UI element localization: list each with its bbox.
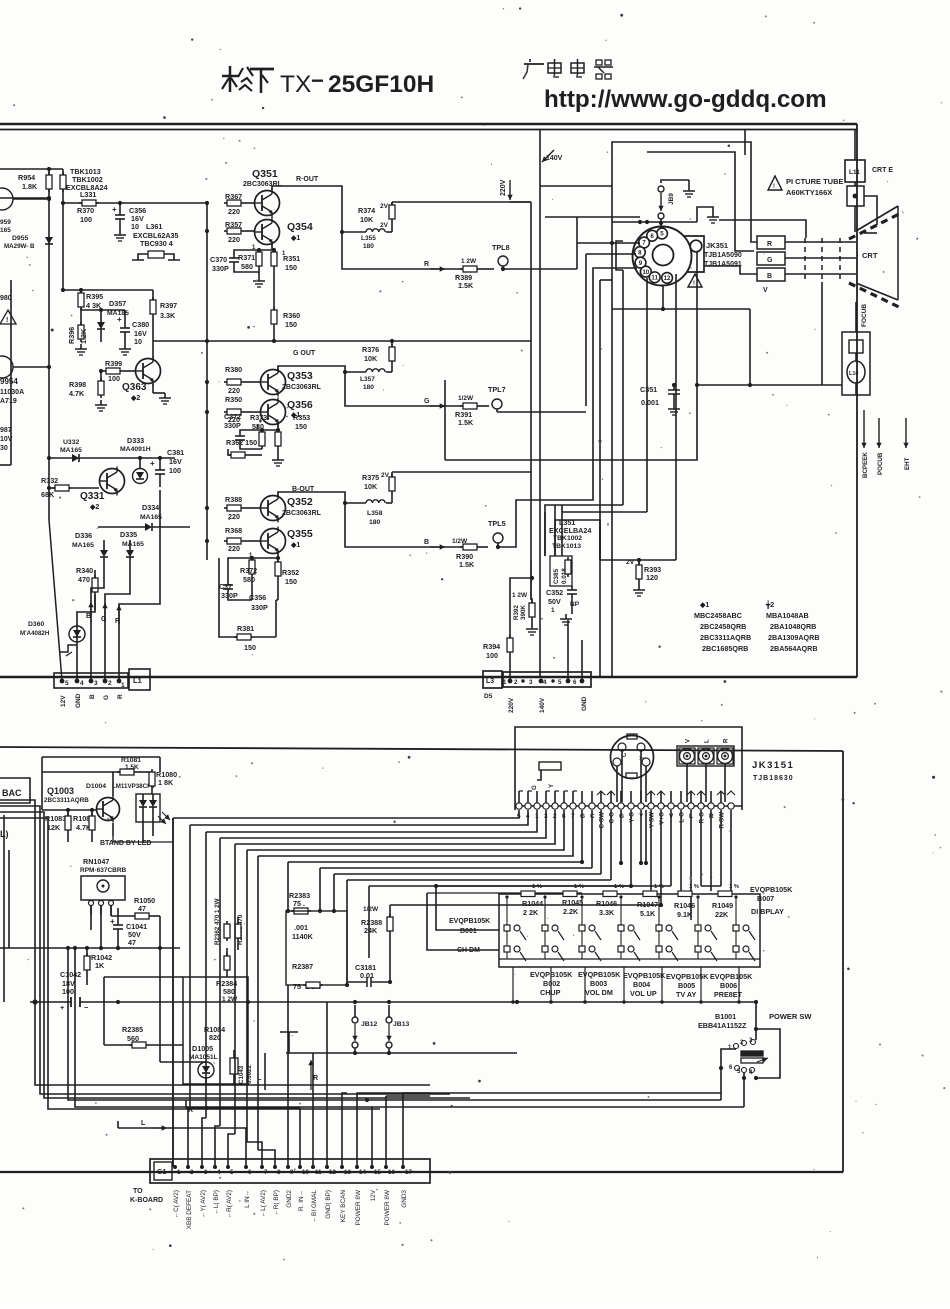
svg-text:Q353: Q353 [287,370,313,382]
label transistor sets [694,600,820,653]
transistor D959 partial left [0,188,51,234]
svg-text:B: B [86,613,91,620]
capacitor C372 330P [224,412,262,449]
wire bus upper bundle [173,810,573,856]
svg-text:0.001: 0.001 [641,398,659,407]
svg-text:120: 120 [646,573,658,582]
svg-text:8: 8 [277,1169,281,1176]
svg-text:RN1047: RN1047 [83,857,109,866]
wire power routes to left [68,948,721,1100]
resistor R332 68K [41,476,99,499]
svg-text:R1047: R1047 [637,900,658,909]
svg-text:11: 11 [651,274,658,281]
wire 140V rail [540,129,563,677]
DIN socket [611,734,654,779]
capacitor C381 [150,448,184,487]
label 987 10V 30 partial [0,427,13,452]
svg-text:B002: B002 [543,979,560,988]
capacitor C371 330P [219,558,252,600]
wires socket to RGB boxes [751,220,757,242]
svg-text:1 %: 1 % [532,884,542,890]
svg-text:L357: L357 [360,376,375,383]
diode D333 MA4091H [120,436,151,484]
svg-text:4: 4 [526,813,530,820]
svg-text:XBB DEFEAT: XBB DEFEAT [186,1190,193,1229]
svg-text:GND( BP): GND( BP) [325,1190,332,1219]
svg-text:11: 11 [315,1169,322,1176]
CRT [849,206,903,309]
svg-text:BCPEEK: BCPEEK [862,452,869,478]
resistor R381 150 box [219,558,276,652]
arrows B G R [88,602,93,622]
svg-text:150: 150 [295,422,307,431]
svg-text:JB12: JB12 [361,1021,377,1028]
svg-text:GND2: GND2 [286,1190,293,1208]
svg-text:9.1K: 9.1K [677,910,693,919]
svg-text:+: + [150,459,155,468]
svg-text:12V: 12V [370,1189,377,1201]
svg-text:L358: L358 [367,510,383,517]
wire socket stem junction [612,308,750,310]
svg-text:◆1: ◆1 [290,542,300,549]
resistor R1082 4.7K [73,810,95,842]
box R2384 [183,977,248,1084]
title 松下 (Matsushita) drawn glyphs [222,66,253,92]
bottom box right border [842,751,844,1172]
wires pins down into matrix and bundles [580,810,731,920]
resistor R395 4.3K [78,290,103,310]
svg-text:MA165: MA165 [122,541,144,548]
svg-text:TJB1A5090: TJB1A5090 [704,252,742,259]
resistor R367 220 [224,192,254,216]
svg-text:G: G [103,695,110,700]
capacitor C356 16V 10 [112,203,162,241]
svg-text:M'A4082H: M'A4082H [20,630,50,637]
svg-text:2BA564AQRB: 2BA564AQRB [770,644,818,653]
wire top-left horizontal [0,168,63,170]
svg-text:2V: 2V [380,203,389,210]
svg-text:75 .: 75 . [293,899,305,908]
testpoint TPL8 [492,243,577,271]
resistor R398 4.7K [69,369,107,411]
wire right bundle corners [436,886,671,930]
wires DIN to pins [621,751,623,802]
svg-text:7: 7 [571,813,575,820]
resistor R2388 24K [361,905,393,984]
svg-text:2BA1048QRB: 2BA1048QRB [770,622,816,631]
svg-text:2BC1685QRB: 2BC1685QRB [702,644,748,653]
svg-text:◆2: ◆2 [89,504,99,511]
svg-text:C385: C385 [553,568,560,584]
svg-text:TJB1A5091: TJB1A5091 [704,261,742,268]
svg-text:9954: 9954 [0,377,18,386]
dashed CRT grid lines [805,238,840,282]
wire long rails bottom box [0,947,180,949]
svg-text:R373: R373 [250,413,267,422]
connector G1 [150,1159,430,1183]
capacitor C356b 330P [249,593,268,612]
svg-text:Q351: Q351 [252,168,278,180]
labels JK3151 pins [517,812,726,829]
svg-text:◆1: ◆1 [699,602,709,609]
svg-text:◆1: ◆1 [290,235,300,242]
diode D336 MA165 [72,531,108,572]
svg-text:1: 1 [503,679,507,686]
wires boxes to CRT neck [785,241,856,243]
resistor R357 220 [224,220,254,244]
svg-text:4.7K: 4.7K [69,389,85,398]
wire second horizontal [0,197,49,199]
testpoint TPL5 [488,519,506,549]
wire socket-right grid [719,220,806,238]
resistor R2381 470 [235,914,244,950]
diode D955 [4,235,53,250]
svg-text:5: 5 [660,231,664,238]
resistor R1081 1.5K [42,757,160,810]
svg-text:2BC3311AQRB: 2BC3311AQRB [44,797,89,804]
transistor Q351 [243,168,319,218]
resistor R392 390K [512,560,538,635]
svg-text:DI BPLAY: DI BPLAY [751,907,784,916]
resistor R2387 75 [292,962,349,991]
label TBK1013 TBK1002 EXCBL8A24 [66,167,108,192]
label EVQPB105K B001 left [449,918,490,954]
svg-text:9: 9 [639,260,643,267]
capacitor C351 0.001 [640,383,680,415]
diode D357 MA185 [97,299,129,342]
svg-text:V+G: V+G [659,812,666,825]
svg-text:Y-G: Y-G [629,812,636,823]
svg-text:MA165: MA165 [140,514,162,521]
jumper rect inside JK3151 [539,762,561,770]
transistor Q954 partial left [0,356,51,405]
button matrix box [499,894,760,967]
svg-text:330P: 330P [224,421,241,430]
svg-text:5: 5 [230,1169,234,1176]
svg-text:24K: 24K [364,926,378,935]
svg-text:C: C [622,752,628,757]
svg-text:←L( BP): ←L( BP) [213,1190,220,1215]
svg-text:C-SW: C-SW [599,812,606,829]
svg-text:1: 1 [551,607,555,614]
svg-text:TO: TO [133,1188,143,1195]
svg-text:12K: 12K [47,823,61,832]
svg-text:5: 5 [517,813,521,820]
wire inner box2 [647,152,754,251]
svg-text:R1046: R1046 [674,901,695,910]
svg-text:1.8K: 1.8K [22,182,38,191]
label JK3151 [752,760,794,782]
ground right of socket [697,207,719,223]
capacitor C1043 0.0022 [230,1050,253,1085]
svg-text:16: 16 [388,1169,395,1176]
svg-text:◆2: ◆2 [130,395,140,402]
svg-text:POWER SW: POWER SW [769,1012,812,1021]
matrix switches row2 [504,946,755,961]
switch wires [756,1029,780,1078]
resistor R2385 560 [104,977,183,1048]
label EXCBL62A35 TBC930 [133,231,179,248]
label 980 warning partial [0,295,16,324]
svg-text:Q352: Q352 [287,496,313,508]
svg-text:17: 17 [405,1169,412,1176]
svg-text:6: 6 [573,679,577,686]
wire bus lower bundle [288,862,661,905]
wire top of Q331 area [93,457,175,459]
svg-text:3: 3 [529,679,533,686]
svg-text:1K: 1K [95,961,105,970]
warning triangle below socket [688,274,702,287]
capacitor C3181 0.01 [347,963,390,987]
capacitor C1041 50V 47 [110,908,147,950]
svg-text:2.2K: 2.2K [563,907,579,916]
svg-text:R1083: R1083 [45,814,66,823]
svg-text:R394: R394 [483,642,500,651]
wire L R arrows mid bottom [118,1100,300,1167]
transistor Q355 [261,527,313,556]
svg-text:25GF10H: 25GF10H [328,71,434,98]
svg-text:6: 6 [248,1169,252,1176]
wire bundle verticals to box [287,862,289,911]
wire main drive horizontal y203 [63,202,207,204]
svg-text:580: 580 [223,987,235,996]
svg-text:R362 150: R362 150 [226,438,257,447]
svg-text:150: 150 [285,320,297,329]
svg-text:220: 220 [228,207,240,216]
svg-text:C356: C356 [249,593,266,602]
wire Q351 collector to R374 node [272,186,342,232]
svg-text:L3: L3 [486,678,494,685]
svg-text:1 %: 1 % [574,884,584,890]
svg-text:←R( BP): ←R( BP) [273,1190,280,1216]
svg-text:Q354: Q354 [287,221,313,233]
svg-text:5.1K: 5.1K [640,909,656,918]
coil L357 / resistor R376 [345,339,395,391]
arrows BCPEEK POCUB EHT [861,410,911,478]
resistor R380 220 [224,365,260,395]
svg-text:R: R [724,738,730,743]
svg-text:POCUB: POCUB [877,452,884,475]
svg-text:10K: 10K [360,215,374,224]
svg-text:10: 10 [134,337,142,346]
svg-text:R370: R370 [77,206,94,215]
svg-text:470: 470 [78,575,90,584]
svg-text:R. IN→: R. IN→ [298,1190,305,1211]
svg-text:L355: L355 [361,235,376,242]
svg-text:http://www.go-gddq.com: http://www.go-gddq.com [544,86,827,113]
svg-text:180: 180 [369,519,381,526]
svg-text:R398: R398 [69,380,86,389]
resistor R371 580 [238,249,265,287]
diode D334 MA165 [98,503,190,531]
resistor R388 220 [224,495,260,521]
wires RCA to pins [686,764,688,802]
svg-text:1: 1 [177,1169,181,1176]
pin strip JK3151 [515,803,742,809]
svg-text:3.3K: 3.3K [160,311,176,320]
svg-text:C381: C381 [167,448,184,457]
svg-text:MA165: MA165 [60,447,82,454]
svg-text:D335: D335 [120,530,137,539]
svg-text:Q363: Q363 [122,382,147,393]
wires inside matrix [505,895,737,959]
label JK351 [704,241,742,268]
top box double border [0,123,857,126]
svg-text:1 2W: 1 2W [512,592,528,599]
wires below matrix [511,967,741,1004]
svg-text:C1042: C1042 [60,970,81,979]
svg-text:VOL UP: VOL UP [630,989,657,998]
svg-text:330P: 330P [251,603,268,612]
svg-text:1 2W: 1 2W [461,258,477,265]
wire Q353 collector [278,366,345,372]
svg-text:!: ! [6,317,8,324]
node 2V / resistor R393 120 [600,520,661,596]
svg-text:2: 2 [553,813,557,820]
svg-text:G: G [531,785,538,790]
svg-text:C1043: C1043 [238,1065,245,1084]
svg-text:L: L [141,1120,146,1127]
svg-text:3: 3 [204,1169,208,1176]
wire drive rail x207 [206,203,208,560]
svg-text:580: 580 [252,422,264,431]
svg-text:PRE8ET: PRE8ET [714,990,743,999]
resistor R1083 12K [45,810,71,842]
svg-text:R350: R350 [225,395,242,404]
svg-text:TPL7: TPL7 [488,385,506,394]
svg-text:22K: 22K [715,910,729,919]
svg-text:R395: R395 [86,292,103,301]
svg-text:14: 14 [359,1169,366,1176]
svg-text:150: 150 [285,577,297,586]
node R374 junction / coil L355 [342,203,392,250]
resistor TBK column [60,169,66,192]
svg-text:330P: 330P [212,264,229,273]
svg-text:3: 3 [544,813,548,820]
svg-text:100: 100 [486,651,498,660]
svg-text:B: B [767,273,772,280]
svg-text:GND: GND [75,693,82,708]
wire right rail top [744,129,746,155]
wires R G B risers into socket [576,217,578,269]
svg-text:1/2W: 1/2W [458,395,474,402]
svg-text:1/2W: 1/2W [363,906,379,913]
transistor Q331 [80,467,125,512]
svg-text:2BA1309AQRB: 2BA1309AQRB [768,633,820,642]
svg-text:D1004: D1004 [86,783,106,790]
svg-text:1 %: 1 % [654,884,664,890]
svg-text:220: 220 [228,544,240,553]
wire G out line [345,372,463,406]
svg-text:D334: D334 [142,503,159,512]
ground mid [265,1032,314,1090]
svg-text:EVQPB105K: EVQPB105K [449,918,490,925]
svg-text:JK351: JK351 [706,241,728,250]
jumper component below EXCBL [132,251,180,260]
svg-text:165: 165 [0,227,11,234]
svg-text:R2387: R2387 [292,962,313,971]
diode D1005 MA1051L [160,948,218,1084]
svg-text:180: 180 [363,384,374,391]
svg-text:TPL8: TPL8 [492,243,510,252]
wire L351 block risers [544,512,546,556]
svg-text:R374: R374 [358,206,375,215]
capacitor C2383 .001 1140K [286,911,347,985]
svg-text:A60KTY166X: A60KTY166X [786,188,832,197]
svg-text:FOCUB: FOCUB [861,304,868,327]
svg-text:L IN→: L IN→ [244,1190,251,1208]
svg-text:RPM·637CBRB: RPM·637CBRB [80,867,127,874]
title 下 glyph [250,69,274,93]
svg-text:1: 1 [535,813,539,820]
label TO K-BOARD [130,1188,163,1204]
resistor R1050 47 [91,896,162,950]
svg-text:PI CTURE TUBE: PI CTURE TUBE [786,177,844,186]
svg-text:R399: R399 [105,359,122,368]
svg-text:150: 150 [244,643,256,652]
svg-text:U332: U332 [63,439,79,446]
svg-text:CH DM: CH DM [457,947,480,954]
svg-text:R360: R360 [283,311,300,320]
svg-text:D360: D360 [28,621,44,628]
connector L11 CRT E [845,129,893,232]
svg-text:V: V [686,739,692,743]
svg-text:2V: 2V [381,472,390,479]
matrix switches row1 [504,925,755,940]
svg-text:L10: L10 [849,371,858,377]
svg-text:R332: R332 [41,476,58,485]
svg-text:MBA1048AB: MBA1048AB [766,611,809,620]
block L351 EXCELBA24 [549,518,591,550]
svg-text:9: 9 [290,1169,294,1176]
wire CRT E loop [864,196,877,225]
svg-text:75: 75 [293,982,301,991]
resistor R2383 75 [286,891,311,914]
svg-text:140V: 140V [546,155,563,162]
svg-text:TBK1002: TBK1002 [553,535,582,542]
diode D335 MA165 [120,530,144,570]
resistor R389 [455,258,494,290]
svg-text:580: 580 [243,575,255,584]
svg-text:CRT: CRT [862,251,878,260]
svg-text:1.5K: 1.5K [458,418,474,427]
wire Q363 collector up [152,330,154,359]
resistor R353 150 [272,413,310,466]
resistor R360 150 [271,269,300,343]
watermark 广电电器 drawn glyphs [523,59,613,79]
svg-text:R372: R372 [240,566,257,575]
svg-text:220: 220 [228,386,240,395]
svg-text:220: 220 [228,235,240,244]
LED box [136,794,170,824]
svg-text:5: 5 [65,680,69,687]
svg-text:D955: D955 [12,235,28,242]
svg-text:1 %: 1 % [689,884,699,890]
resistor R1042 1K [84,948,112,985]
svg-text:100: 100 [80,215,92,224]
svg-text:D357: D357 [109,299,126,308]
svg-text:2: 2 [108,680,112,687]
svg-text:L11: L11 [849,169,860,176]
svg-text:140V: 140V [539,697,546,713]
testpoint TPL7 [488,385,586,412]
svg-text:MBC2458ABC: MBC2458ABC [694,611,742,620]
svg-text:EVQPB105K: EVQPB105K [666,972,709,981]
svg-text:50V: 50V [548,597,561,606]
top box bottom border [0,676,857,678]
svg-text:R: R [115,618,120,625]
svg-text:15: 15 [374,1169,381,1176]
